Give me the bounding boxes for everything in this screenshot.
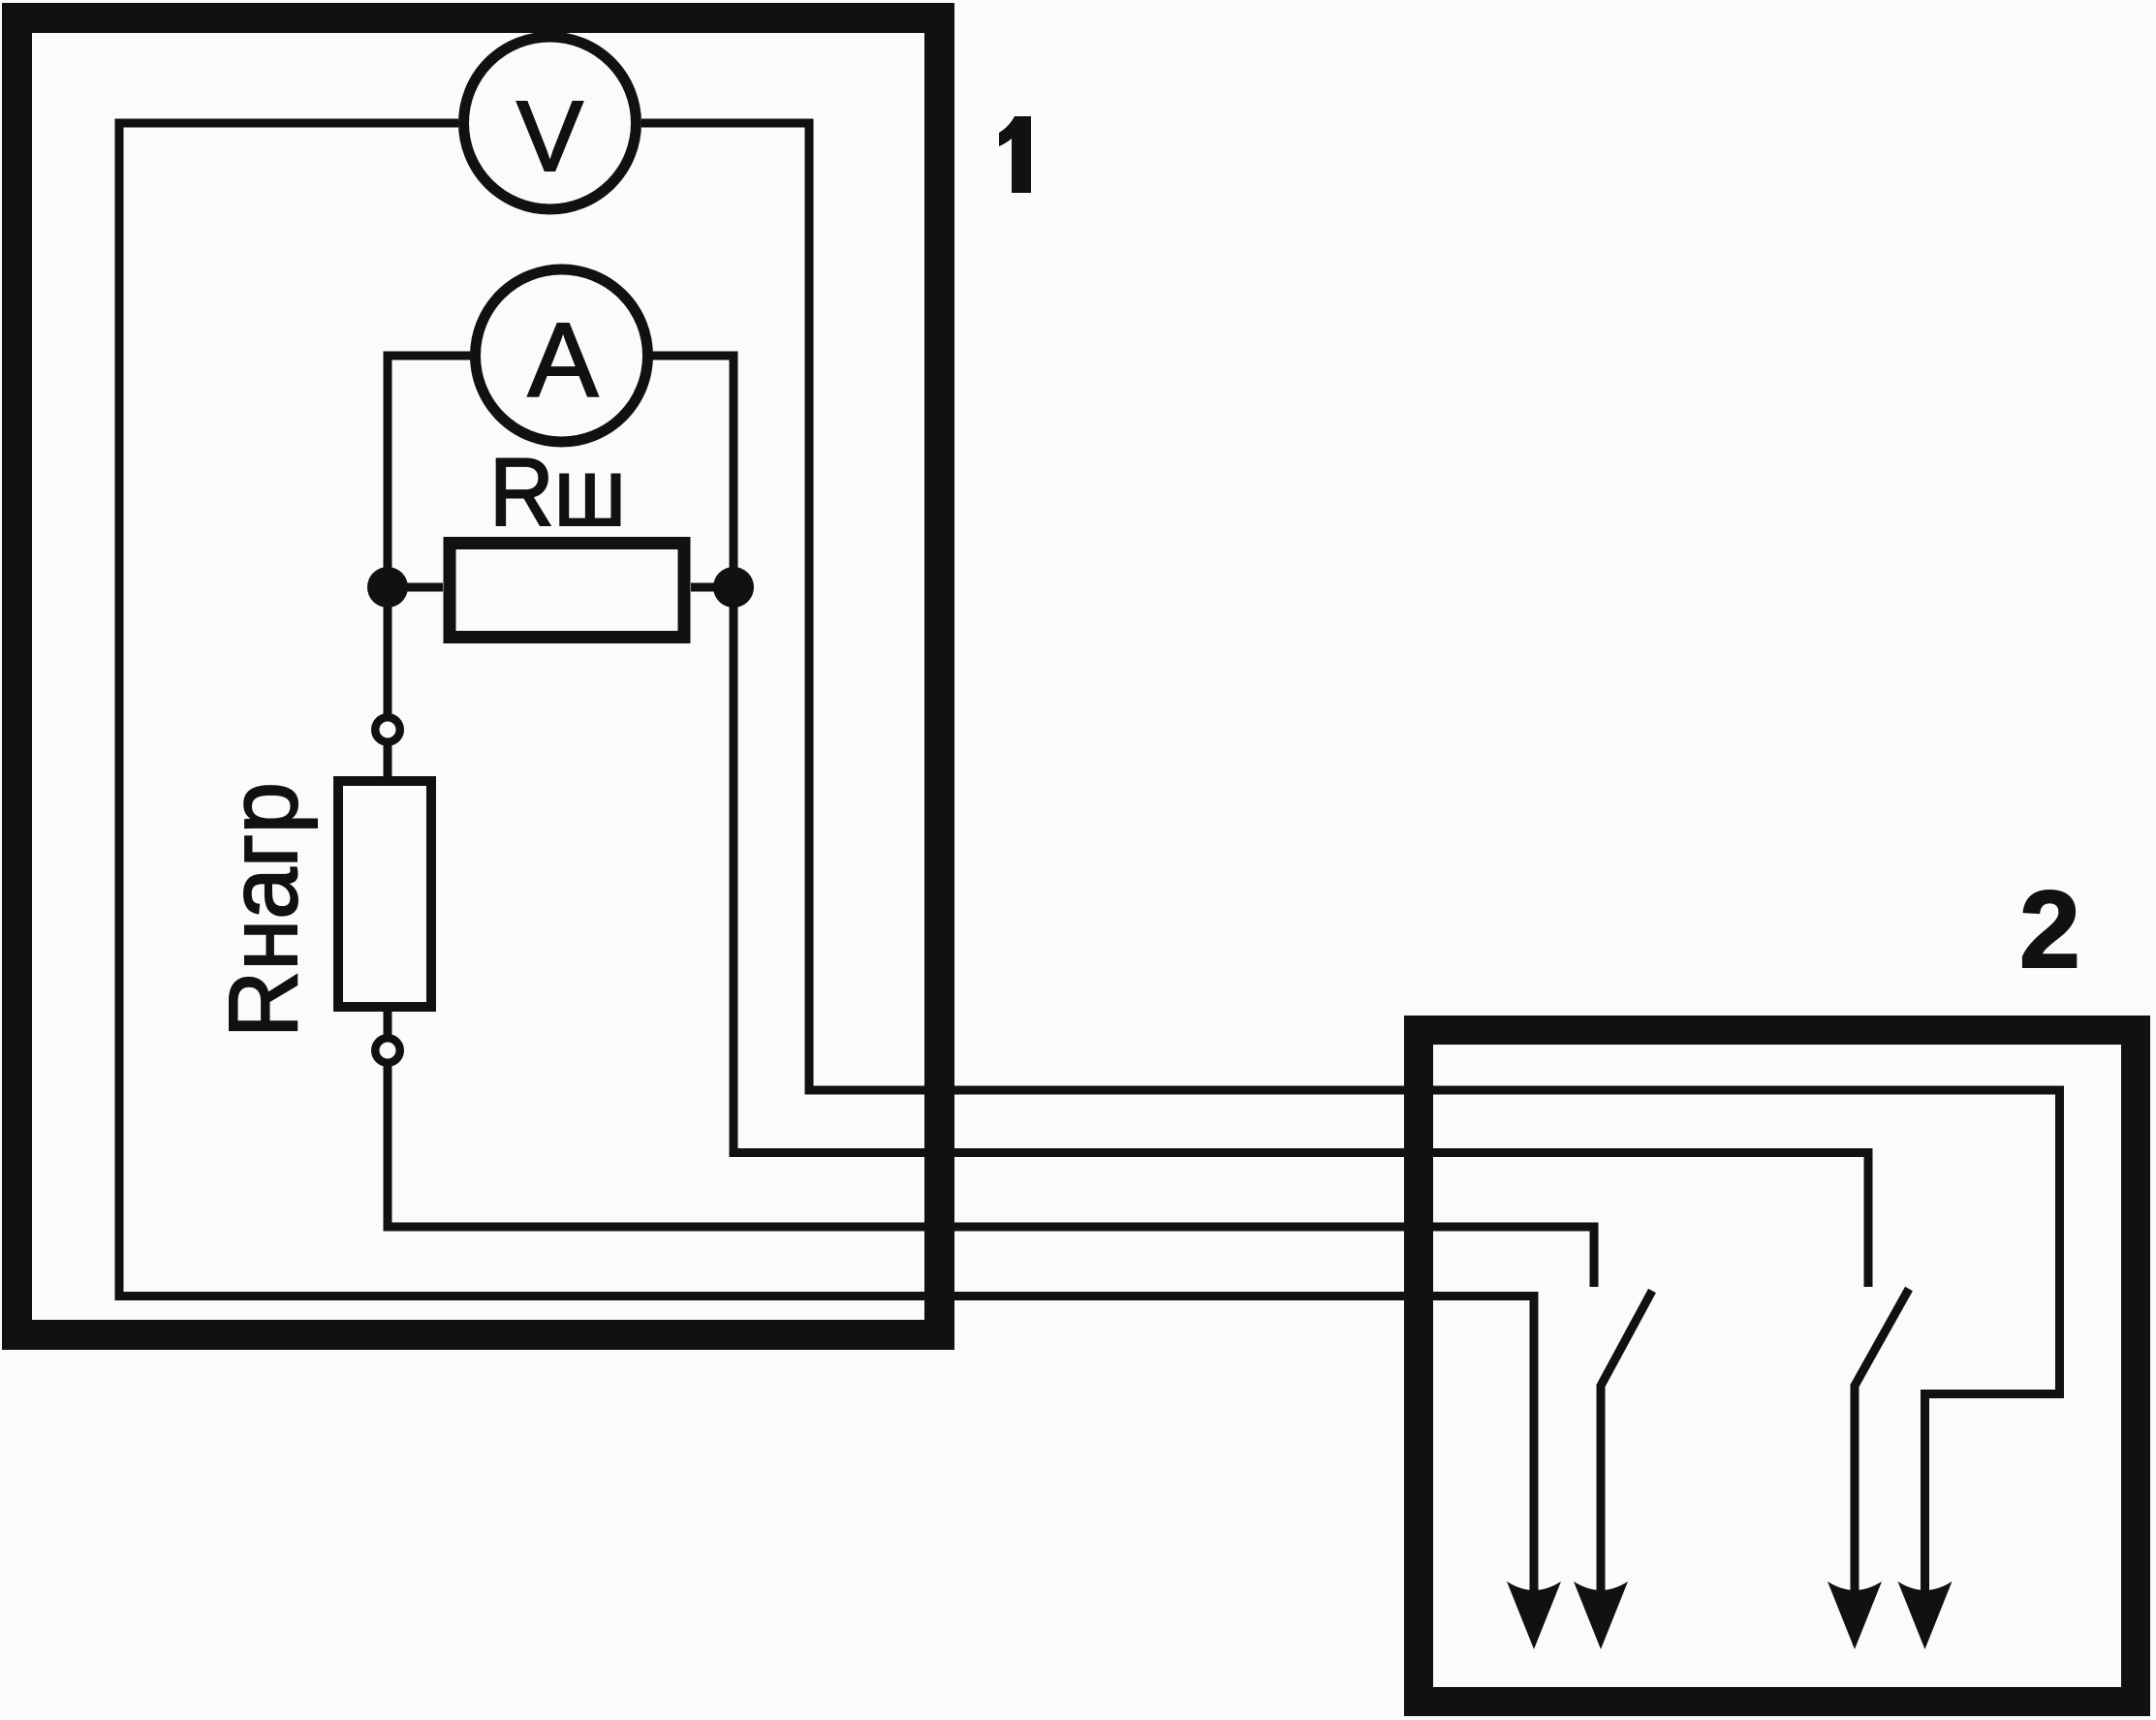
wire: voltmeter right to box 2 right side, jog, down to arrow 4 [641,123,2060,1601]
node dot left [367,567,408,608]
node dot right [713,567,754,608]
wire: ammeter right branch down and out to switch 2 fixed contact [650,356,1868,1287]
svg-text:Rш: Rш [489,438,626,546]
label 1 (box 1) [999,116,1031,193]
terminal circle top of Rnagr [375,717,400,742]
box 1 (device 1 enclosure) [17,18,940,1335]
svg-text:A: A [528,301,599,420]
arrowhead 4 [1898,1581,1953,1649]
svg-text:V: V [516,80,583,192]
arrowhead 2 [1574,1581,1628,1649]
resistor Rsh body [450,544,684,638]
switch 1 blade [1601,1291,1652,1601]
resistor Rnagr body [338,781,431,1007]
switch 2 blade [1855,1289,1909,1601]
arrowhead 3 [1828,1581,1882,1649]
arrowhead 1 [1507,1581,1561,1649]
box 2 (device 2 enclosure) [1419,1030,2136,1702]
resistor Rsh leads [388,583,734,592]
svg-text:Rнагр: Rнагр [209,782,318,1038]
wire: ammeter left branch down to Rnagr and out to switch 1 fixed contact [388,356,1594,1287]
svg-text:2: 2 [2019,868,2080,990]
wire: left loop + bottom wire to arrow 1 [119,123,1534,1601]
ammeter A circle [476,269,648,442]
terminal circle bottom of Rnagr [375,1038,400,1063]
voltmeter V circle [464,37,637,209]
